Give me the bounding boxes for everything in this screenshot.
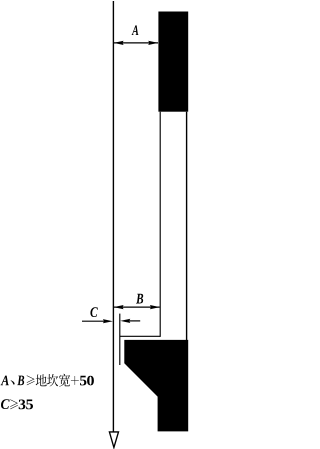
note line 2: C >= 35 (1, 399, 33, 409)
plumb centerline (112, 1, 114, 432)
sill front edge line (119, 314, 121, 365)
dimension B right arrowhead (150, 305, 160, 309)
note1 digit 0 (87, 376, 94, 386)
label A (132, 25, 139, 35)
note2 greater-equal (10, 399, 18, 409)
landing floor line (120, 335, 161, 337)
dimension C right leader line (127, 320, 140, 322)
dimension A left arrowhead (114, 41, 124, 45)
door jamb left edge line (159, 112, 161, 337)
dimension B line (114, 306, 160, 308)
note1 letter B (17, 376, 24, 386)
note2 digit 3 (19, 400, 26, 410)
label C (90, 307, 97, 317)
dimension B left arrowhead (114, 305, 124, 309)
dimension A line (114, 42, 158, 44)
dimension A right arrowhead (148, 41, 158, 45)
note1 char di (ground) (36, 374, 47, 386)
label B (136, 294, 143, 304)
note1 ideographic comma (11, 380, 15, 384)
note1 plus sign (71, 376, 79, 385)
note1 greater-equal (27, 375, 35, 385)
shaft wall right edge line (186, 112, 188, 341)
note line 1: A, B >= sill width + 50 (1, 374, 94, 387)
note1 char kan (sill) (47, 374, 58, 386)
note1 letter A (1, 376, 9, 386)
plumb-bob open arrowhead (109, 432, 118, 448)
dimension C right arrowhead (120, 319, 130, 323)
note1 char kuan (width) (59, 374, 70, 387)
note2 digit 5 (26, 400, 33, 410)
landing slab corbel (filled black) (124, 340, 188, 432)
dimension C left arrowhead (103, 319, 113, 323)
wall section above door (filled black) (158, 12, 188, 112)
dimension C left leader line (82, 320, 106, 322)
note1 digit 5 (80, 376, 86, 386)
note2 letter C (1, 399, 10, 409)
